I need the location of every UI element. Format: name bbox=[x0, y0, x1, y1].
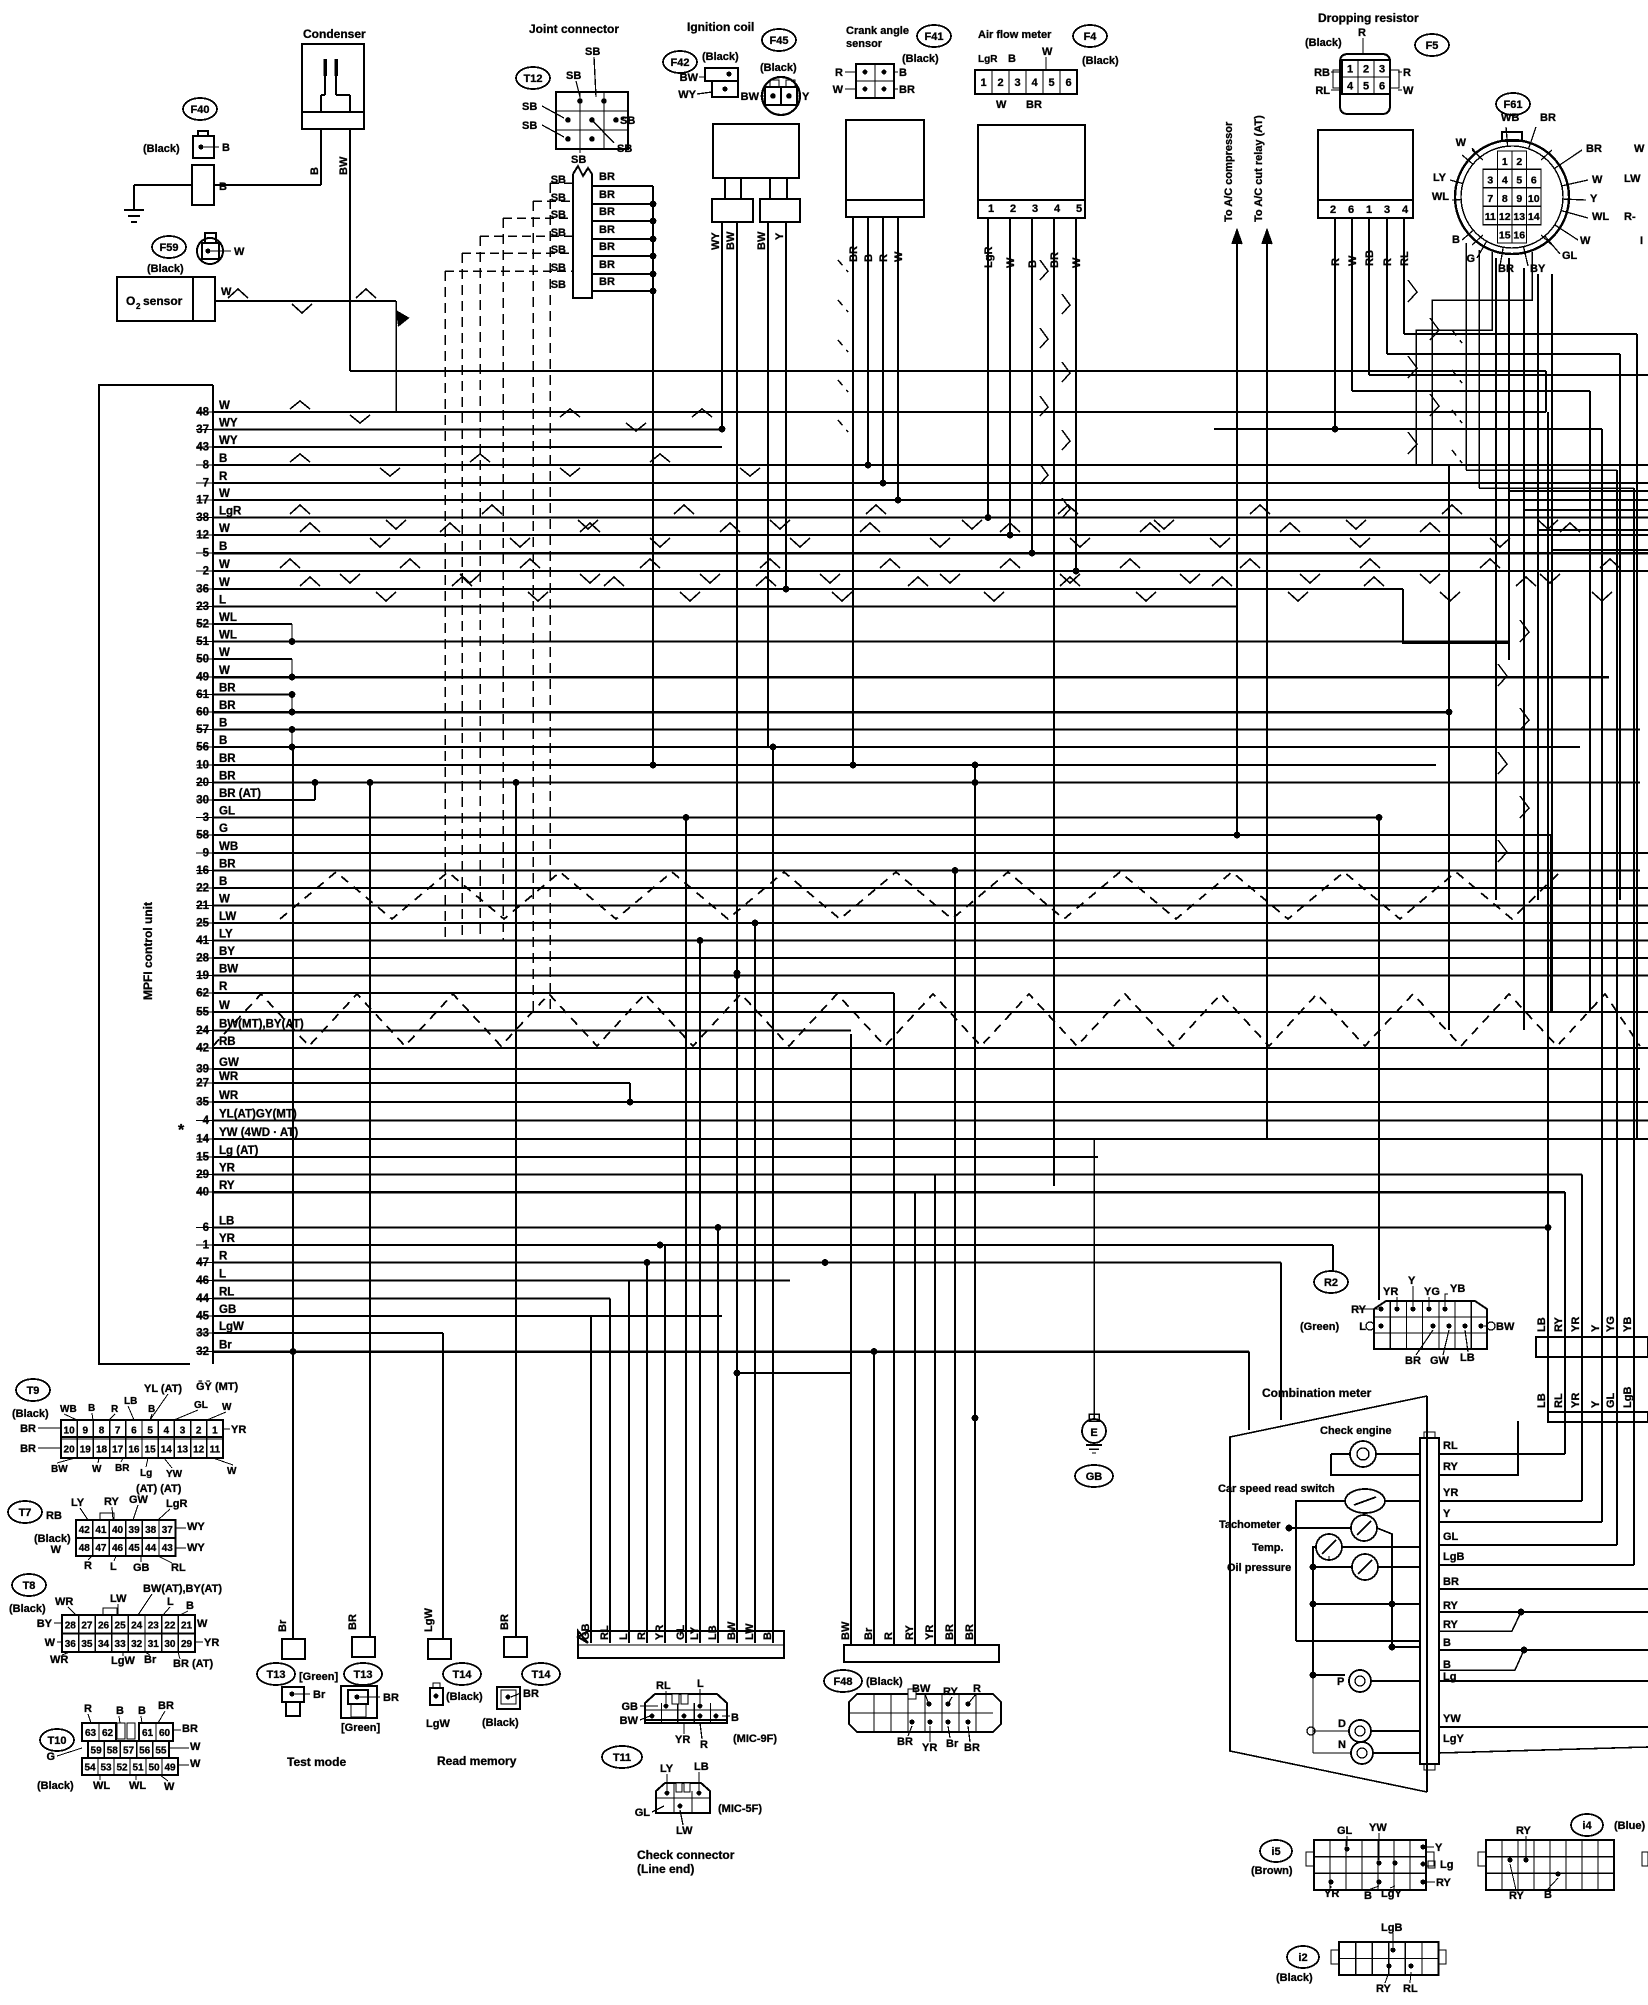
wire Br to F48 bbox=[873, 1352, 875, 1646]
svg-text:31: 31 bbox=[148, 1639, 160, 1650]
svg-text:W: W bbox=[190, 1758, 201, 1770]
svg-text:T11: T11 bbox=[613, 1752, 631, 1764]
svg-text:12: 12 bbox=[1499, 211, 1511, 223]
svg-text:38: 38 bbox=[145, 1525, 157, 1536]
svg-text:5: 5 bbox=[1076, 203, 1082, 215]
svg-text:L: L bbox=[167, 1596, 174, 1608]
svg-text:60: 60 bbox=[159, 1728, 171, 1739]
svg-text:RL: RL bbox=[1403, 1983, 1418, 1995]
svg-text:Check connector: Check connector bbox=[637, 1848, 735, 1862]
svg-text:BW: BW bbox=[741, 91, 760, 103]
connector T7 oval bbox=[8, 1501, 42, 1523]
svg-text:14: 14 bbox=[1528, 211, 1540, 223]
wire Br to T13 bbox=[292, 747, 294, 1639]
svg-text:R: R bbox=[219, 981, 228, 993]
connector F59 oval bbox=[152, 236, 186, 258]
svg-text:LY: LY bbox=[219, 929, 233, 941]
connector i2 oval bbox=[1287, 1946, 1319, 1968]
svg-text:B: B bbox=[222, 142, 230, 154]
svg-text:YR: YR bbox=[204, 1637, 219, 1649]
connector F45 bbox=[762, 77, 800, 115]
svg-text:T8: T8 bbox=[23, 1580, 36, 1592]
svg-text:B: B bbox=[1443, 1637, 1451, 1649]
svg-text:LgR: LgR bbox=[166, 1498, 187, 1510]
svg-text:BR: BR bbox=[599, 259, 615, 271]
svg-text:LY: LY bbox=[660, 1763, 674, 1775]
svg-text:2: 2 bbox=[1330, 204, 1336, 216]
svg-text:B: B bbox=[731, 1712, 739, 1724]
svg-text:BW(MT),BY(AT): BW(MT),BY(AT) bbox=[219, 1019, 304, 1031]
svg-text:SB: SB bbox=[566, 70, 581, 82]
svg-text:61: 61 bbox=[142, 1728, 154, 1739]
wire RL to check connector bbox=[609, 1299, 611, 1644]
BW branch to F48 bbox=[737, 1372, 851, 1374]
svg-text:F59: F59 bbox=[160, 242, 179, 254]
svg-text:R: R bbox=[1358, 27, 1366, 39]
svg-text:RY: RY bbox=[1443, 1600, 1459, 1612]
svg-text:WL: WL bbox=[1432, 191, 1449, 203]
svg-text:1: 1 bbox=[1347, 64, 1353, 76]
svg-text:10: 10 bbox=[64, 1426, 76, 1437]
svg-text:2: 2 bbox=[136, 302, 141, 311]
svg-text:BW: BW bbox=[725, 231, 737, 250]
svg-text:14: 14 bbox=[161, 1445, 173, 1456]
svg-text:BR: BR bbox=[599, 224, 615, 236]
svg-text:RY: RY bbox=[943, 1686, 959, 1698]
svg-text:O: O bbox=[126, 294, 135, 308]
F61 tails bbox=[1465, 243, 1467, 470]
svg-text:6: 6 bbox=[1531, 174, 1537, 186]
wire to ground E bbox=[1093, 1139, 1095, 1419]
svg-text:3: 3 bbox=[180, 1426, 186, 1437]
svg-text:BR: BR bbox=[1026, 99, 1042, 111]
svg-text:RY: RY bbox=[1443, 1619, 1459, 1631]
svg-text:i4: i4 bbox=[1582, 1820, 1592, 1832]
svg-text:BR: BR bbox=[383, 1692, 399, 1704]
svg-text:W: W bbox=[219, 559, 230, 571]
svg-text:40: 40 bbox=[112, 1525, 124, 1536]
svg-text:sensor: sensor bbox=[846, 38, 883, 50]
check connector bus bbox=[578, 1631, 784, 1658]
BR bus vertical bbox=[652, 186, 654, 765]
svg-text:9: 9 bbox=[1516, 193, 1522, 205]
wire 36 step bbox=[1403, 589, 1509, 643]
svg-text:Y: Y bbox=[774, 232, 786, 240]
svg-text:39: 39 bbox=[129, 1525, 141, 1536]
svg-text:BW: BW bbox=[620, 1715, 639, 1727]
svg-text:YR: YR bbox=[922, 1742, 937, 1754]
svg-text:Y: Y bbox=[1443, 1508, 1451, 1520]
svg-text:G: G bbox=[219, 823, 228, 835]
crank angle sensor box bbox=[846, 120, 924, 200]
svg-text:E: E bbox=[1090, 1427, 1097, 1439]
svg-text:W: W bbox=[45, 1637, 56, 1649]
wire 27-35 step bbox=[629, 1083, 631, 1102]
wire BW to check connector bbox=[736, 976, 738, 1644]
ignition coil box bbox=[713, 124, 799, 178]
connector F48 bbox=[849, 1694, 1001, 1732]
svg-text:SB: SB bbox=[522, 120, 537, 132]
svg-text:B: B bbox=[186, 1600, 194, 1612]
svg-text:B: B bbox=[138, 1705, 146, 1717]
svg-text:BR: BR bbox=[599, 241, 615, 253]
svg-text:34: 34 bbox=[98, 1639, 110, 1650]
svg-text:RB: RB bbox=[1364, 250, 1376, 266]
svg-text:Br: Br bbox=[144, 1654, 157, 1666]
wire GL to check connector bbox=[685, 818, 687, 1644]
svg-text:RY: RY bbox=[1516, 1825, 1532, 1837]
svg-text:LgY: LgY bbox=[1381, 1888, 1402, 1900]
connector T14-2 bbox=[497, 1687, 520, 1709]
wire LB to check connector bbox=[717, 1228, 719, 1644]
svg-text:LY: LY bbox=[71, 1497, 85, 1509]
wire R to Y-bus bbox=[1214, 428, 1602, 430]
svg-text:RY: RY bbox=[1436, 1877, 1452, 1889]
svg-text:11: 11 bbox=[1485, 211, 1496, 223]
svg-text:10: 10 bbox=[1528, 193, 1540, 205]
svg-text:MPFI control unit: MPFI control unit bbox=[141, 902, 155, 1000]
svg-text:YG: YG bbox=[1424, 1286, 1440, 1298]
ignition coil sub-connectors bbox=[712, 199, 753, 222]
combination meter connector bar bbox=[1420, 1438, 1439, 1764]
to A/C compressor arrow bbox=[1236, 232, 1238, 835]
svg-text:W: W bbox=[1005, 257, 1017, 268]
svg-text:BR: BR bbox=[1586, 143, 1602, 155]
connector i4 bbox=[1486, 1840, 1614, 1890]
svg-text:(Black): (Black) bbox=[760, 62, 797, 74]
svg-text:W: W bbox=[1580, 235, 1591, 247]
svg-text:W: W bbox=[92, 1464, 102, 1475]
svg-text:RL: RL bbox=[1399, 251, 1411, 266]
svg-text:63: 63 bbox=[85, 1728, 97, 1739]
svg-text:3: 3 bbox=[1032, 203, 1038, 215]
right mesh verticals bbox=[1495, 258, 1497, 900]
crank wires bbox=[852, 217, 854, 240]
svg-text:R: R bbox=[835, 67, 843, 79]
connector i2 bbox=[1339, 1942, 1439, 1975]
svg-text:R: R bbox=[883, 1632, 895, 1640]
connector R2 oval bbox=[1314, 1271, 1348, 1293]
svg-text:W: W bbox=[222, 1402, 232, 1413]
crank angle connector bbox=[856, 64, 894, 98]
wire BR to T13-2 bbox=[369, 783, 371, 1638]
svg-text:LgW: LgW bbox=[423, 1608, 435, 1632]
wire BR to F48 bbox=[974, 765, 976, 1645]
svg-text:Br: Br bbox=[219, 1340, 232, 1352]
wire W run right bbox=[396, 411, 1546, 413]
svg-text:F45: F45 bbox=[770, 35, 789, 47]
svg-text:BR: BR bbox=[20, 1443, 36, 1455]
svg-text:LB: LB bbox=[219, 1216, 234, 1228]
svg-text:WB: WB bbox=[60, 1404, 77, 1415]
svg-text:BR: BR bbox=[219, 700, 236, 712]
shield marks crank bbox=[838, 260, 848, 272]
svg-text:RL: RL bbox=[1443, 1440, 1458, 1452]
svg-text:LY: LY bbox=[689, 1626, 701, 1640]
svg-text:LgB: LgB bbox=[1381, 1922, 1402, 1934]
svg-text:Lg: Lg bbox=[1440, 1859, 1453, 1871]
svg-text:RY: RY bbox=[1553, 1316, 1565, 1332]
svg-text:F5: F5 bbox=[1426, 40, 1439, 52]
svg-text:W: W bbox=[219, 665, 230, 677]
svg-text:WR: WR bbox=[219, 1090, 239, 1102]
svg-text:YR: YR bbox=[219, 1233, 236, 1245]
svg-text:6: 6 bbox=[1065, 77, 1071, 89]
svg-text:SB: SB bbox=[551, 174, 566, 186]
svg-text:(Black): (Black) bbox=[1276, 1972, 1313, 1984]
connector F48 bus bbox=[844, 1645, 999, 1662]
to A/C cut relay arrow bbox=[1266, 232, 1268, 1139]
svg-text:Y: Y bbox=[1590, 1400, 1602, 1408]
svg-text:B: B bbox=[219, 181, 227, 193]
svg-text:4: 4 bbox=[1054, 203, 1061, 215]
svg-text:11: 11 bbox=[210, 1445, 221, 1456]
svg-text:Lg: Lg bbox=[140, 1468, 152, 1479]
svg-text:LY: LY bbox=[1433, 172, 1447, 184]
svg-text:BR: BR bbox=[219, 859, 236, 871]
wire YR to check connector bbox=[664, 1245, 666, 1643]
svg-text:BR: BR bbox=[219, 771, 236, 783]
svg-text:BR: BR bbox=[897, 1736, 913, 1748]
svg-text:BR: BR bbox=[1443, 1576, 1459, 1588]
connector T9 oval bbox=[16, 1379, 50, 1401]
svg-text:GB: GB bbox=[133, 1562, 150, 1574]
svg-text:R-: R- bbox=[1624, 211, 1636, 223]
svg-text:BR: BR bbox=[964, 1742, 980, 1754]
svg-text:YB: YB bbox=[1622, 1317, 1634, 1332]
svg-text:WL: WL bbox=[93, 1780, 110, 1792]
svg-text:RL: RL bbox=[1315, 85, 1330, 97]
svg-text:Car speed read switch: Car speed read switch bbox=[1218, 1483, 1335, 1495]
svg-text:1: 1 bbox=[1366, 204, 1372, 216]
svg-text:BR: BR bbox=[964, 1624, 976, 1640]
shield marks right bbox=[1408, 280, 1417, 302]
svg-text:R: R bbox=[1403, 67, 1411, 79]
svg-text:(Black): (Black) bbox=[147, 263, 184, 275]
svg-text:BW(AT),BY(AT): BW(AT),BY(AT) bbox=[143, 1583, 222, 1595]
wire YR to F48 bbox=[934, 1175, 936, 1646]
connector i5 oval bbox=[1260, 1840, 1292, 1862]
svg-text:To A/C compressor: To A/C compressor bbox=[1223, 121, 1235, 222]
svg-text:YR: YR bbox=[1324, 1888, 1339, 1900]
svg-text:W: W bbox=[1456, 137, 1467, 149]
connector T11 MIC-9F bbox=[645, 1694, 727, 1723]
wire LY to check connector bbox=[699, 941, 701, 1644]
svg-text:W: W bbox=[219, 647, 230, 659]
svg-text:T12: T12 bbox=[524, 73, 543, 85]
relay box F40 bbox=[192, 165, 214, 205]
svg-text:BW: BW bbox=[756, 231, 768, 250]
svg-text:Crank angle: Crank angle bbox=[846, 25, 909, 37]
svg-text:F41: F41 bbox=[925, 31, 944, 43]
svg-text:W: W bbox=[219, 1000, 230, 1012]
svg-text:1: 1 bbox=[1502, 156, 1508, 168]
wire 47 tail bbox=[1280, 1263, 1282, 1421]
svg-text:LB: LB bbox=[707, 1625, 719, 1640]
svg-text:GW: GW bbox=[219, 1057, 239, 1069]
svg-text:Br: Br bbox=[277, 1619, 289, 1632]
svg-text:5: 5 bbox=[1516, 174, 1522, 186]
svg-text:RL: RL bbox=[656, 1680, 671, 1692]
wire BW to F48 bbox=[850, 1034, 852, 1645]
svg-text:YR: YR bbox=[1570, 1317, 1582, 1332]
svg-text:29: 29 bbox=[181, 1639, 193, 1650]
connector F61 oval bbox=[1496, 93, 1530, 115]
svg-text:GL: GL bbox=[1562, 250, 1578, 262]
svg-text:B: B bbox=[762, 1632, 774, 1640]
svg-text:*: * bbox=[178, 1122, 185, 1139]
svg-text:(Black): (Black) bbox=[446, 1691, 483, 1703]
connector GB oval bbox=[1075, 1465, 1113, 1487]
svg-text:G: G bbox=[46, 1751, 55, 1763]
svg-text:55: 55 bbox=[155, 1746, 167, 1757]
svg-text:W: W bbox=[1071, 257, 1083, 268]
svg-text:BR: BR bbox=[523, 1688, 539, 1700]
svg-text:LgR: LgR bbox=[983, 247, 995, 268]
dropping resistor wires bbox=[1334, 218, 1336, 429]
svg-text:RB: RB bbox=[1314, 67, 1330, 79]
wire 52-51 step bbox=[291, 624, 293, 642]
svg-text:W: W bbox=[190, 1741, 201, 1753]
svg-text:YL (AT): YL (AT) bbox=[144, 1383, 182, 1395]
svg-text:L: L bbox=[697, 1678, 704, 1690]
connector T13-2 wire end bbox=[352, 1637, 375, 1657]
air flow wires bbox=[987, 218, 989, 517]
svg-text:4: 4 bbox=[1402, 204, 1409, 216]
svg-text:RY: RY bbox=[1509, 1890, 1525, 1902]
svg-text:B: B bbox=[219, 876, 227, 888]
svg-text:YR: YR bbox=[219, 1163, 236, 1175]
svg-text:13: 13 bbox=[1513, 211, 1525, 223]
svg-text:Br: Br bbox=[313, 1689, 326, 1701]
svg-text:LgR: LgR bbox=[978, 54, 998, 65]
svg-text:B: B bbox=[219, 718, 227, 730]
svg-text:Read memory: Read memory bbox=[437, 1754, 517, 1768]
svg-text:B: B bbox=[309, 167, 321, 175]
svg-text:Joint connector: Joint connector bbox=[529, 22, 619, 36]
svg-text:9: 9 bbox=[83, 1426, 89, 1437]
svg-text:W: W bbox=[219, 488, 230, 500]
svg-text:BR: BR bbox=[599, 189, 615, 201]
svg-text:4: 4 bbox=[1502, 174, 1508, 186]
svg-text:BR: BR bbox=[1049, 252, 1061, 268]
svg-text:W: W bbox=[197, 1618, 208, 1630]
svg-text:LgW: LgW bbox=[219, 1321, 244, 1333]
svg-text:(Line end): (Line end) bbox=[637, 1862, 694, 1876]
connector T13 bbox=[282, 1687, 304, 1702]
svg-text:LgY: LgY bbox=[1443, 1733, 1464, 1745]
svg-text:WR: WR bbox=[50, 1654, 68, 1666]
svg-text:B: B bbox=[1544, 1889, 1552, 1901]
svg-text:Air flow meter: Air flow meter bbox=[978, 29, 1052, 41]
svg-text:LB: LB bbox=[124, 1396, 137, 1407]
svg-text:RY: RY bbox=[104, 1496, 120, 1508]
svg-text:56: 56 bbox=[139, 1746, 151, 1757]
right bus connector box bbox=[1536, 1337, 1648, 1357]
svg-text:W: W bbox=[219, 577, 230, 589]
svg-text:Combination meter: Combination meter bbox=[1262, 1386, 1372, 1400]
svg-text:T10: T10 bbox=[48, 1735, 67, 1747]
svg-text:BR: BR bbox=[499, 1614, 511, 1630]
svg-text:T7: T7 bbox=[19, 1507, 32, 1519]
wire BW2 bbox=[767, 222, 769, 747]
meter internal wires bbox=[1310, 1601, 1317, 1608]
svg-text:i5: i5 bbox=[1271, 1846, 1280, 1858]
svg-text:(Black): (Black) bbox=[37, 1780, 74, 1792]
svg-text:(Black): (Black) bbox=[9, 1603, 46, 1615]
svg-text:GL: GL bbox=[635, 1807, 651, 1819]
svg-text:W: W bbox=[219, 523, 230, 535]
svg-text:48: 48 bbox=[79, 1543, 91, 1554]
svg-text:R: R bbox=[1330, 258, 1342, 266]
svg-text:G: G bbox=[1466, 253, 1475, 265]
svg-text:YG: YG bbox=[1605, 1316, 1617, 1332]
svg-text:(Black): (Black) bbox=[902, 53, 939, 65]
svg-text:SB: SB bbox=[585, 46, 600, 58]
svg-text:B: B bbox=[899, 67, 907, 79]
svg-text:W: W bbox=[51, 1544, 62, 1556]
svg-text:GL: GL bbox=[219, 806, 235, 818]
svg-text:Temp.: Temp. bbox=[1252, 1542, 1284, 1554]
svg-text:RL: RL bbox=[1553, 1393, 1565, 1408]
svg-text:GL: GL bbox=[1443, 1531, 1459, 1543]
connector T11 MIC-5F bbox=[656, 1783, 710, 1813]
svg-text:B: B bbox=[863, 254, 875, 262]
svg-text:R: R bbox=[111, 1404, 119, 1415]
svg-text:13: 13 bbox=[177, 1445, 189, 1456]
connector T7 grid bbox=[76, 1520, 176, 1556]
svg-text:(Black): (Black) bbox=[866, 1676, 903, 1688]
svg-text:GL: GL bbox=[675, 1624, 687, 1640]
connector T14-2 wire end bbox=[504, 1637, 527, 1657]
svg-text:B: B bbox=[1364, 1890, 1372, 1902]
connector T14 wire end bbox=[428, 1639, 451, 1659]
svg-text:28: 28 bbox=[65, 1620, 77, 1631]
svg-text:(Black): (Black) bbox=[12, 1408, 49, 1420]
shield dashed verticals bbox=[444, 271, 446, 940]
svg-text:Tachometer: Tachometer bbox=[1219, 1519, 1281, 1531]
svg-text:3: 3 bbox=[1384, 204, 1390, 216]
wire BW bbox=[736, 222, 738, 973]
joint connector T12 grid bbox=[556, 92, 628, 149]
connector F59 bbox=[197, 238, 223, 264]
svg-text:RY: RY bbox=[1351, 1304, 1367, 1316]
shield arrow bbox=[396, 311, 408, 326]
svg-text:2: 2 bbox=[997, 77, 1003, 89]
svg-text:BW: BW bbox=[680, 72, 699, 84]
svg-text:30: 30 bbox=[164, 1639, 176, 1650]
svg-text:BW: BW bbox=[912, 1683, 931, 1695]
svg-text:19: 19 bbox=[80, 1445, 92, 1456]
svg-text:47: 47 bbox=[95, 1543, 107, 1554]
svg-text:36: 36 bbox=[65, 1639, 77, 1650]
svg-text:BR (AT): BR (AT) bbox=[219, 788, 261, 800]
wire BW condenser run bbox=[350, 370, 1546, 372]
svg-text:WB: WB bbox=[1501, 112, 1519, 124]
svg-text:SB: SB bbox=[551, 209, 566, 221]
svg-text:YR: YR bbox=[654, 1625, 666, 1640]
wire 32 tail bbox=[1248, 1352, 1250, 1431]
svg-text:GW: GW bbox=[1430, 1355, 1450, 1367]
svg-text:i2: i2 bbox=[1298, 1952, 1307, 1964]
svg-text:WY: WY bbox=[710, 232, 722, 250]
svg-text:(Green): (Green) bbox=[1300, 1321, 1339, 1333]
svg-text:Dropping resistor: Dropping resistor bbox=[1318, 11, 1419, 25]
svg-text:6: 6 bbox=[131, 1426, 137, 1437]
svg-text:16: 16 bbox=[1513, 230, 1525, 242]
connector T10 grid bbox=[82, 1723, 116, 1741]
ground E symbol bbox=[1089, 1414, 1099, 1421]
